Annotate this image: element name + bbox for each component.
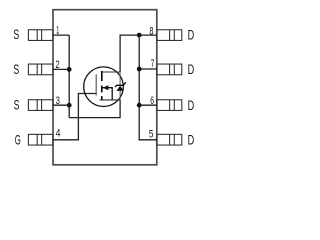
svg-text:7: 7 (151, 58, 155, 70)
svg-text:S: S (14, 97, 20, 113)
gate wire pin4 riser to gate bar (53, 94, 96, 140)
source bottom line (source bar to diode node) (100, 99, 121, 101)
junction dot pin3 (67, 103, 72, 108)
package outline (SO-8 body) (53, 10, 157, 165)
pin 8 lead (157, 30, 182, 41)
junction dot pin7 (137, 67, 142, 72)
junction dot pin6 (137, 103, 142, 108)
pin 6 lead (157, 100, 182, 111)
channel dash (source region) (101, 96, 103, 100)
wire pin2 stub (53, 68, 69, 70)
svg-text:8: 8 (149, 26, 153, 38)
junction dot pin2 (67, 67, 72, 72)
pin 3 lead (28, 100, 53, 111)
svg-text:4: 4 (56, 127, 61, 139)
channel dash (body region) (101, 86, 103, 93)
pin 4 lead (28, 134, 53, 145)
drain stub (channel top to diode node) (102, 71, 120, 73)
pin 7 lead (157, 64, 182, 75)
svg-text:S: S (13, 26, 19, 42)
source return wire (bus to MOSFET source) (69, 100, 120, 118)
svg-text:S: S (13, 61, 19, 77)
svg-text:D: D (188, 131, 195, 147)
wire pin3 stub (53, 104, 69, 106)
svg-text:D: D (188, 97, 195, 113)
body arrow (points left into channel) (103, 85, 109, 90)
pin 1 lead (28, 30, 53, 41)
source bus (pins 1-2-3 common, down to source return) (68, 35, 70, 118)
svg-text:D: D (188, 61, 195, 77)
gate bar (95, 74, 97, 95)
svg-text:5: 5 (149, 129, 154, 141)
wire pin1 to source bus corner (53, 34, 69, 36)
body diode D1 top lead (cathode side) (119, 72, 121, 85)
pin 5 lead (157, 134, 182, 145)
channel dash (drain region) (101, 71, 103, 81)
drain lead wire (pin8 row down to symbol top) (120, 35, 157, 72)
junction dot pin8 (drain bus top) (137, 33, 142, 38)
body diode cathode bar with zener ticks (115, 82, 126, 87)
drain bus (pins 5-6-7-8 common) (139, 35, 157, 140)
svg-text:G: G (15, 132, 21, 148)
body diode anode triangle (117, 86, 124, 91)
MOSFET Q1 body circle (84, 67, 124, 107)
body diode bottom lead (anode side) (119, 91, 121, 100)
wire pin6 stub (139, 104, 157, 106)
svg-text:D: D (188, 27, 195, 43)
wire pin7 stub (139, 68, 157, 70)
pin 2 lead (28, 64, 53, 75)
body stub wire with down lead (102, 88, 112, 100)
